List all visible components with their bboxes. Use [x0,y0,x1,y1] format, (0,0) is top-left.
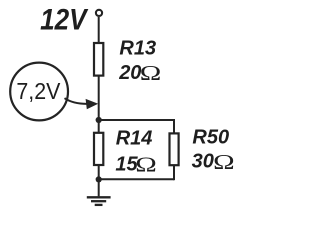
svg-text:Ω: Ω [135,153,157,176]
svg-text:7,2V: 7,2V [16,78,61,104]
wire R13 to node A [98,76,100,120]
svg-text:R50: R50 [192,127,229,149]
svg-text:Ω: Ω [140,62,162,85]
leader arrow from bubble to node A [65,98,88,104]
terminal (open circle) 12V [96,10,102,16]
wire down to R50 [173,119,175,134]
svg-text:R14: R14 [116,127,153,149]
svg-text:30: 30 [192,151,214,173]
voltmeter bubble 7,2V [10,63,68,121]
ground [87,197,111,205]
svg-text:Ω: Ω [213,151,235,174]
wire node A to R14 [98,120,100,134]
node B (junction dot) [96,176,102,182]
svg-text:12V: 12V [40,4,89,37]
resistor R14 [94,133,103,165]
svg-text:R13: R13 [119,37,156,59]
node A (junction dot) [96,117,102,123]
wire terminal to R13 [98,17,100,44]
wire bottom horizontal node B to R50 branch [99,178,174,180]
resistor R50 [170,133,179,165]
wire node A to R50 branch (top horizontal) [99,119,174,121]
wire node B to ground [98,179,100,196]
resistor R13 [94,43,103,76]
svg-text:20: 20 [118,62,141,84]
wire R50 to bottom horizontal [173,165,175,181]
wire R14 to node B [98,165,100,180]
